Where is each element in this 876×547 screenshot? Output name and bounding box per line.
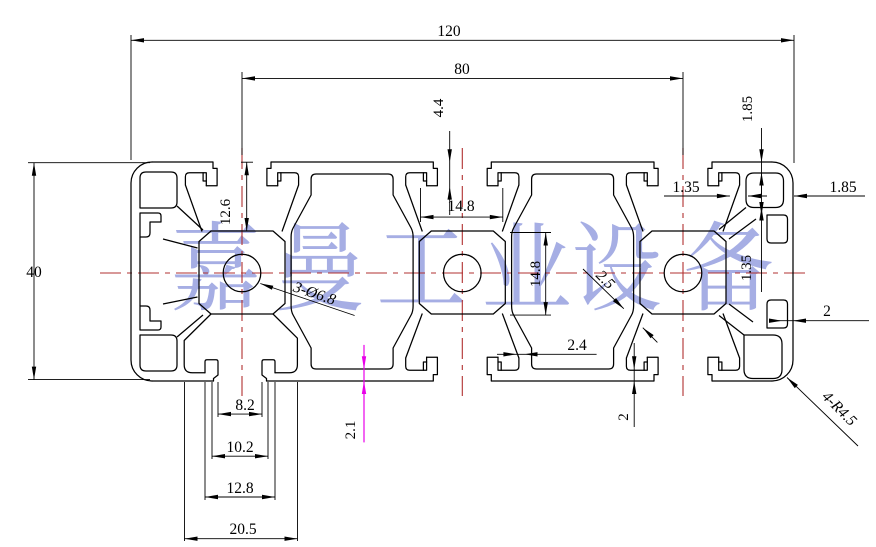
dim 1.85 right	[794, 195, 865, 197]
label 3-D6.8	[260, 284, 354, 316]
dim 12.6	[246, 162, 248, 231]
big cavity at x=352	[291, 174, 413, 369]
svg-text:2.1: 2.1	[343, 421, 359, 440]
dim 20.5	[184, 382, 186, 541]
left end top cavity	[140, 172, 177, 208]
dim 12.8	[204, 382, 206, 500]
big cavity at x=573	[512, 174, 634, 369]
right end web diagonals	[719, 208, 746, 230]
dim 2.1 magenta	[363, 345, 365, 443]
right end small cavity lower	[767, 300, 788, 328]
right end D cavity	[746, 173, 784, 208]
dim 8.2	[217, 382, 219, 417]
svg-text:12.6: 12.6	[218, 198, 234, 225]
right end small cavity upper	[767, 215, 788, 243]
dim 4.4	[449, 131, 451, 215]
top T-slot at x=462	[487, 162, 498, 186]
watermark text	[174, 221, 257, 311]
dim 2 bottom	[633, 343, 635, 427]
dim 40	[28, 162, 150, 164]
dim 80	[241, 72, 243, 155]
svg-text:14.8: 14.8	[447, 198, 474, 215]
svg-text:2: 2	[616, 413, 632, 421]
svg-text:8.2: 8.2	[235, 397, 254, 414]
svg-text:2: 2	[823, 303, 831, 320]
vertical centerline hole 1	[241, 148, 243, 396]
left end web diagonals	[177, 206, 203, 230]
hole 1 circle	[223, 254, 261, 292]
profile outer contour: bottom face	[152, 380, 214, 382]
dim 14.8 top	[420, 188, 422, 222]
horizontal centerline	[100, 272, 806, 274]
svg-text:4.4: 4.4	[431, 98, 447, 117]
svg-text:10.2: 10.2	[226, 439, 253, 456]
octagon cell hole 1	[199, 231, 285, 314]
octagon cell hole 3	[640, 231, 726, 314]
dim 14.8 vertical	[510, 232, 551, 234]
svg-text:1.85: 1.85	[829, 179, 856, 196]
svg-text:40: 40	[26, 264, 42, 281]
hole 3 circle	[664, 254, 702, 292]
svg-text:2.4: 2.4	[567, 337, 587, 354]
bottom T-slot at x=462	[487, 357, 498, 381]
left end top hook	[140, 213, 161, 237]
octagon cell hole 2	[419, 231, 505, 314]
right end corner cavity	[744, 335, 782, 379]
dim 1.85 top	[761, 128, 763, 195]
svg-text:1.35: 1.35	[739, 255, 755, 281]
dim 10.2	[211, 382, 213, 459]
top T-slot at x=683	[708, 162, 719, 186]
dim 120	[130, 35, 132, 160]
left end inner wall	[139, 237, 141, 306]
left end bottom hook	[140, 306, 161, 330]
bottom T-slot at x=683	[708, 357, 719, 381]
profile outer contour: top face	[152, 161, 213, 163]
hole 2 circle	[444, 254, 482, 292]
svg-text:80: 80	[454, 61, 470, 78]
svg-text:14.8: 14.8	[528, 261, 544, 287]
label 4-R4.5	[787, 378, 858, 447]
profile right edge with corner fillets	[772, 162, 793, 381]
bottom slot hole 1 (20.5 wide cavity, lip towers)	[184, 314, 211, 373]
left end bottom cavity	[140, 335, 177, 371]
dim 1.35 vertical	[761, 173, 763, 292]
svg-text:1.35: 1.35	[672, 179, 699, 196]
dim 1.35 horizontal	[664, 195, 730, 197]
dim 2.4	[497, 353, 597, 355]
profile left edge with corner fillets	[131, 162, 152, 381]
svg-text:20.5: 20.5	[229, 521, 256, 538]
svg-text:1.85: 1.85	[740, 96, 756, 122]
vertical centerline hole 3	[682, 148, 684, 396]
vertical centerline hole 2	[461, 148, 463, 396]
dim 2.5 diagonal leaders	[583, 269, 624, 309]
svg-text:120: 120	[437, 23, 461, 40]
svg-text:12.8: 12.8	[226, 480, 253, 497]
dim 2 right	[772, 320, 869, 322]
top T-slot at x=242	[267, 162, 278, 186]
